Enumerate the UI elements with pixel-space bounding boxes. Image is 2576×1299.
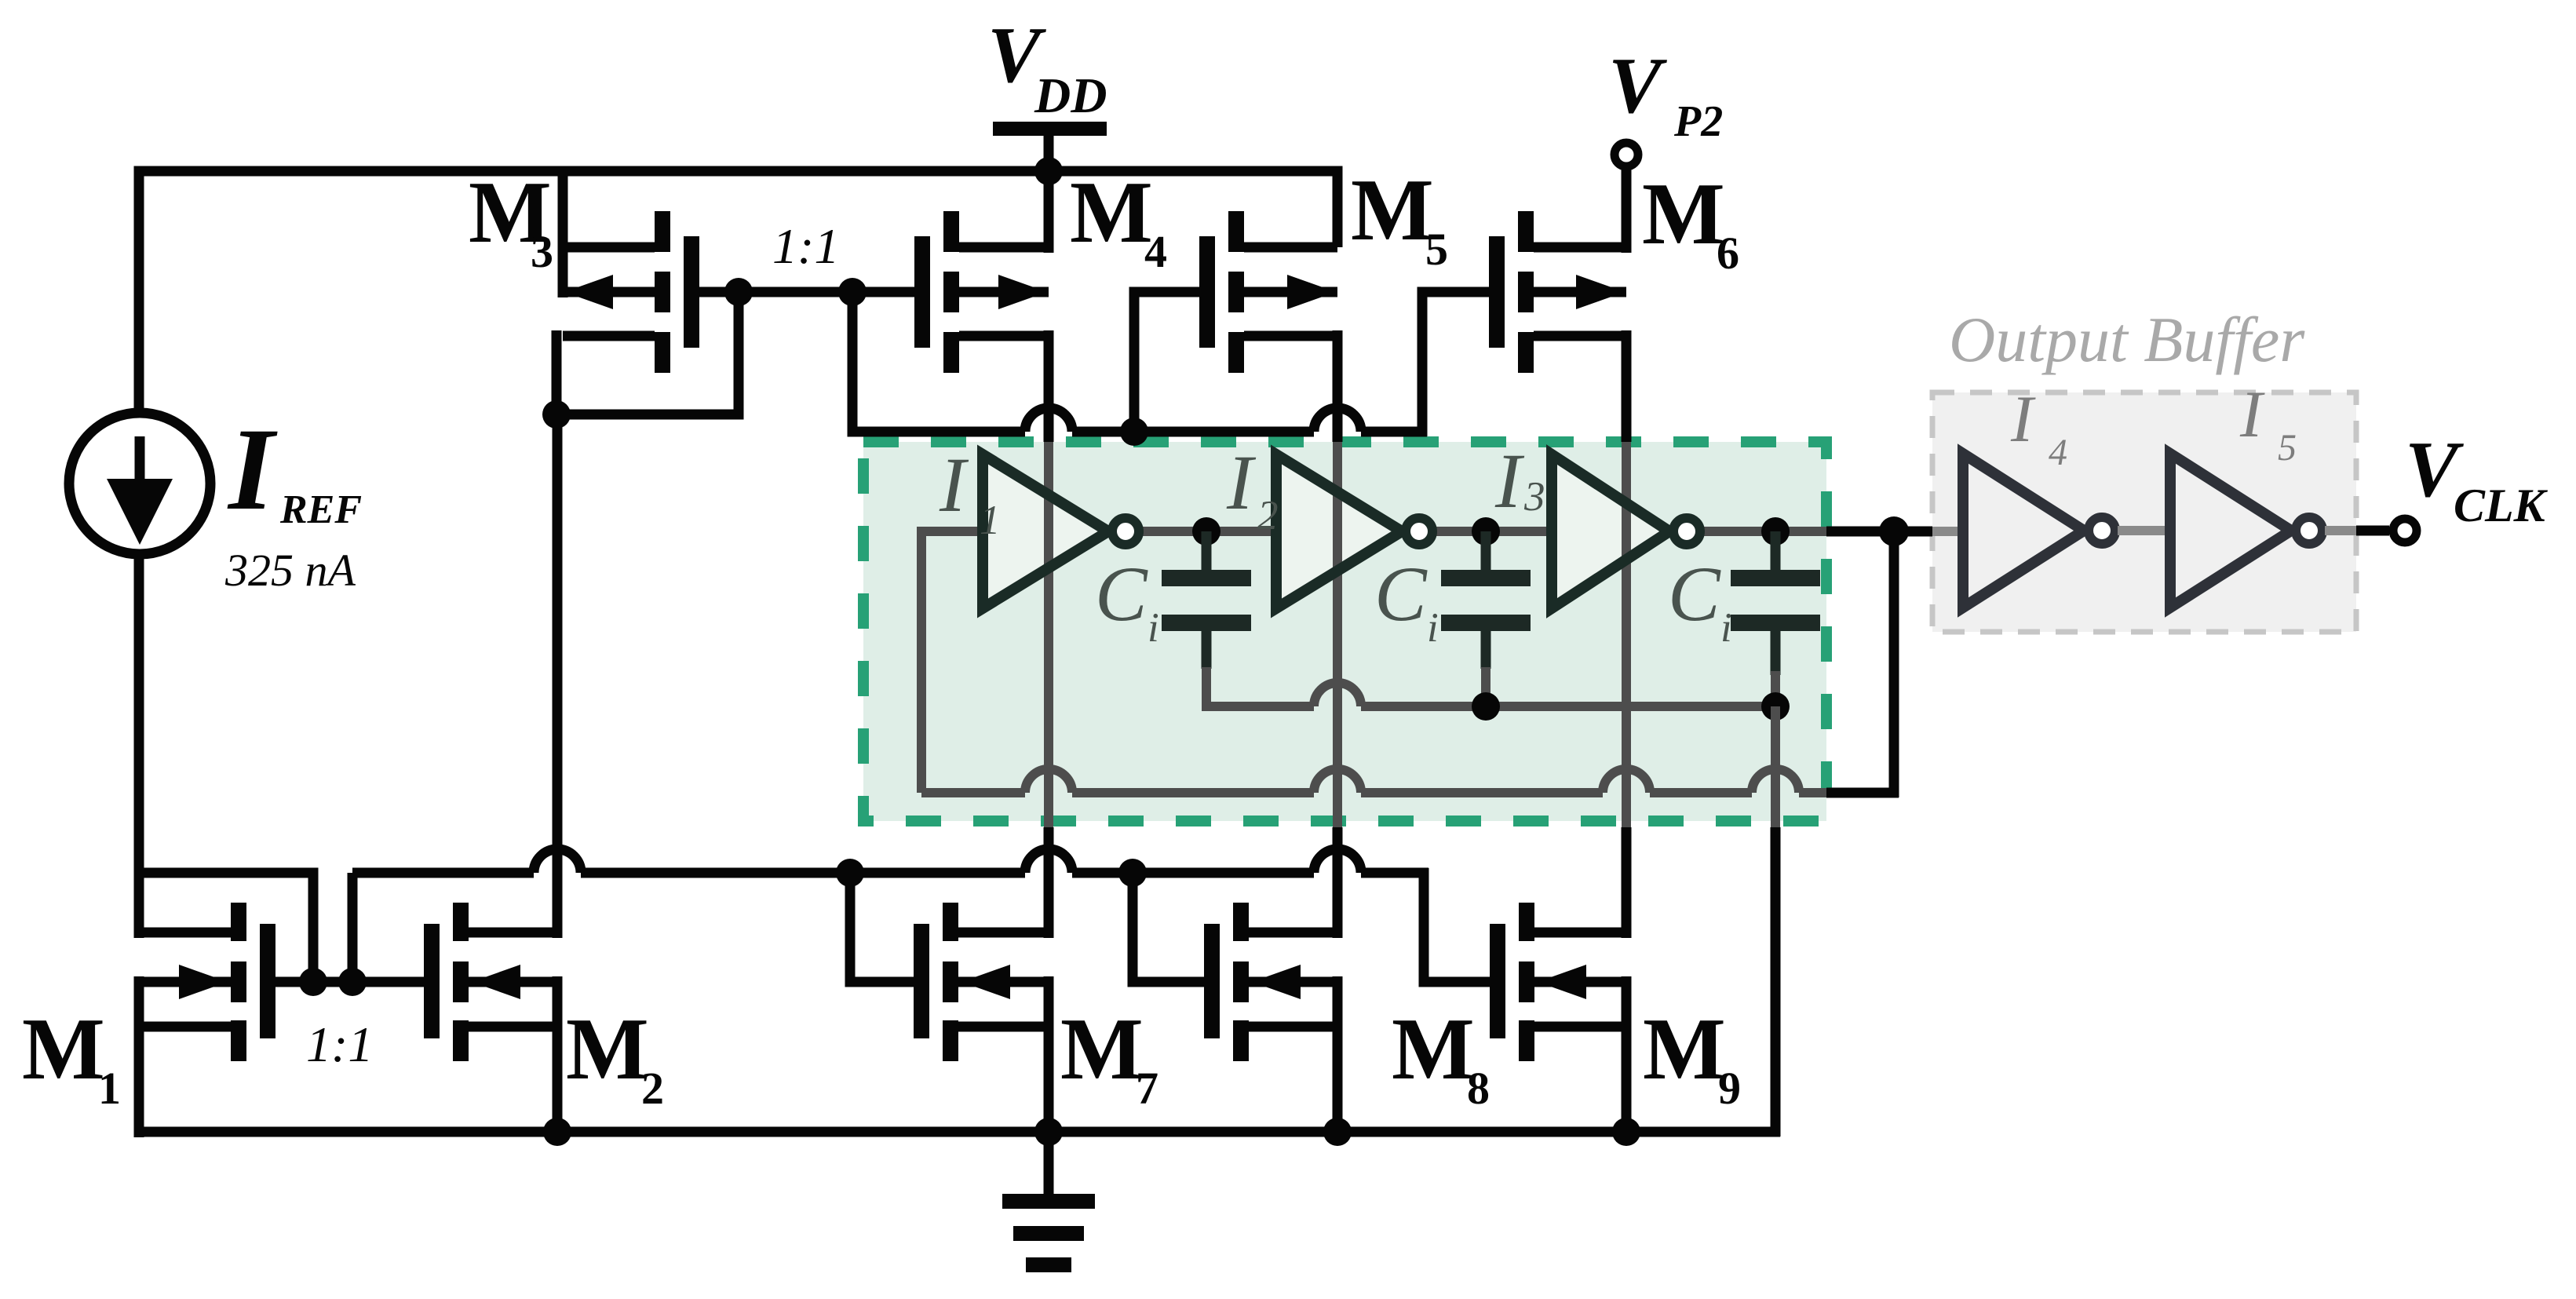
label C3 <box>1668 550 1732 651</box>
node M8 source dot <box>1323 1118 1352 1146</box>
ring oscillator block (green dashed box) <box>863 442 1826 821</box>
label M7 <box>1060 1001 1158 1114</box>
svg-text:REF: REF <box>279 487 362 532</box>
svg-text:6: 6 <box>1717 228 1739 279</box>
svg-text:DD: DD <box>1034 68 1107 123</box>
svg-text:9: 9 <box>1718 1063 1741 1114</box>
svg-text:CLK: CLK <box>2454 480 2549 531</box>
node M8 gate tap dot <box>1118 859 1147 887</box>
wire IREF to gate node <box>134 873 313 982</box>
ground <box>1002 1132 1095 1272</box>
wire feedback <box>921 527 1899 797</box>
svg-text:I: I <box>2010 382 2036 456</box>
label I5 <box>2239 378 2297 469</box>
wire I1 input <box>921 527 983 536</box>
label 325 nA <box>224 545 356 596</box>
wire M5 gate <box>1134 292 1199 436</box>
transistor M5 <box>1199 211 1337 373</box>
svg-text:5: 5 <box>1425 224 1448 275</box>
transistor M8 <box>1204 903 1337 1061</box>
wire I5 out <box>2325 526 2389 535</box>
wire I1 out to I2 <box>1138 527 1276 536</box>
svg-text:325 nA: 325 nA <box>224 545 356 596</box>
node M2 gate dot <box>338 968 367 996</box>
svg-text:1:1: 1:1 <box>772 218 839 274</box>
label I1 <box>939 441 1001 543</box>
svg-text:C: C <box>1095 550 1148 637</box>
node M3 gate-drain dot <box>724 278 753 306</box>
wire M3 drain stub down <box>552 330 562 414</box>
label VCLK <box>2405 425 2549 531</box>
wire cap common down <box>1771 706 1780 1137</box>
svg-text:C: C <box>1668 550 1721 637</box>
svg-text:I: I <box>2239 378 2265 451</box>
label IREF <box>227 404 362 535</box>
wire M7 source down <box>1044 976 1054 1132</box>
label M9 <box>1643 1001 1741 1114</box>
wire M5 drain down <box>1333 330 1343 442</box>
label M5 <box>1351 162 1448 275</box>
wire M2 source down <box>553 976 563 1132</box>
wire PMOS mirror bias <box>852 292 1427 432</box>
current source IREF <box>69 413 210 554</box>
wire IREF bottom to M1 drain <box>134 554 144 938</box>
label VP2 <box>1608 42 1723 146</box>
wire I2 out to I3 <box>1432 527 1552 536</box>
node oscillator output dot <box>1879 516 1909 546</box>
transistor M3 <box>563 211 699 373</box>
wire I1 starve line <box>1044 442 1053 938</box>
label C2 <box>1374 550 1439 651</box>
wire M7 gate <box>850 873 914 982</box>
wire M4 gate <box>852 287 914 297</box>
svg-text:3: 3 <box>1523 474 1545 520</box>
node M1 gate dot <box>299 968 327 996</box>
svg-text:4: 4 <box>2049 432 2067 473</box>
svg-text:I: I <box>227 404 278 535</box>
inverter I1 outline <box>983 454 1139 608</box>
wire top VDD rail <box>139 171 1337 413</box>
svg-text:I: I <box>1494 437 1525 524</box>
svg-text:2: 2 <box>641 1063 664 1114</box>
transistor M4 <box>914 211 1049 373</box>
node M2 source dot <box>543 1118 571 1146</box>
svg-text:M: M <box>22 1001 105 1098</box>
VDD symbol <box>987 11 1107 171</box>
node M4 gate dot <box>838 278 867 306</box>
node M7 source dot <box>1034 1118 1063 1146</box>
label M3 <box>469 164 553 277</box>
svg-text:M: M <box>1643 1001 1726 1098</box>
inverter I3 outline <box>1552 454 1700 608</box>
label 1:1 bottom <box>306 1016 373 1072</box>
svg-text:M: M <box>1642 166 1725 263</box>
svg-text:i: i <box>1148 605 1159 651</box>
capacitor C1 <box>1162 531 1251 711</box>
svg-text:8: 8 <box>1467 1063 1490 1114</box>
wire M2 gate <box>352 977 424 987</box>
svg-text:M: M <box>1070 164 1153 261</box>
svg-text:V: V <box>1608 42 1667 130</box>
svg-text:2: 2 <box>1257 493 1279 538</box>
capacitor C2 <box>1441 531 1531 706</box>
transistor M2 <box>424 903 557 1061</box>
svg-text:M: M <box>566 1001 649 1098</box>
svg-text:3: 3 <box>531 226 553 277</box>
inverter I5 <box>2170 454 2322 608</box>
transistor M9 <box>1490 903 1626 1061</box>
inverter I2 <box>1276 454 1402 608</box>
wire M8 gate <box>1133 873 1204 982</box>
label I4 <box>2010 382 2067 473</box>
svg-text:7: 7 <box>1136 1063 1158 1114</box>
terminal VCLK <box>2393 519 2417 542</box>
capacitor C3 <box>1731 531 1820 706</box>
wire I3 out <box>1699 527 1932 536</box>
wire M9 gate <box>1424 868 1490 982</box>
wire into I4 <box>1932 527 1963 536</box>
node M5 gate tap dot <box>1120 418 1148 446</box>
label I3 <box>1494 437 1545 524</box>
wire M6 gate <box>1422 292 1489 436</box>
wire I2 starve line <box>1333 442 1342 938</box>
transistor M7 <box>914 903 1049 1061</box>
wire ground rail <box>134 1127 1780 1137</box>
wire VP2 to M6 source <box>1622 166 1632 253</box>
node M3 drain / M2 drain junction <box>542 400 571 429</box>
label M1 <box>22 1001 121 1114</box>
node C2 bottom dot <box>1472 692 1500 721</box>
wire gate pair link <box>313 977 352 987</box>
label M2 <box>566 1001 664 1114</box>
svg-text:i: i <box>1427 605 1439 651</box>
terminal VP2 <box>1615 143 1638 166</box>
svg-text:i: i <box>1720 605 1732 651</box>
transistor M1 <box>139 903 275 1061</box>
inverter I2 outline <box>1276 454 1432 608</box>
wire NMOS mirror bias <box>352 849 1428 982</box>
inverter I1 <box>983 454 1108 608</box>
wire M9 source down <box>1622 976 1632 1132</box>
wire M4 drain down <box>1044 330 1054 442</box>
wire M1 source down <box>134 976 144 1137</box>
svg-text:1:1: 1:1 <box>306 1016 373 1072</box>
node ring node 2 dot <box>1472 517 1500 546</box>
svg-text:1: 1 <box>98 1063 121 1114</box>
transistor M6 <box>1489 211 1626 373</box>
wire M3 diode link <box>556 292 739 414</box>
svg-text:C: C <box>1374 550 1428 637</box>
node C3 bottom dot <box>1761 692 1790 721</box>
label C1 <box>1095 550 1159 651</box>
label M4 <box>1070 164 1167 277</box>
node M9 source dot <box>1612 1118 1640 1146</box>
wire M3 gate <box>699 287 739 297</box>
svg-text:P2: P2 <box>1673 97 1723 146</box>
label M6 <box>1642 166 1739 279</box>
svg-text:M: M <box>1060 1001 1144 1098</box>
wire M6 drain down <box>1622 330 1632 442</box>
wire M3 source rail drop <box>558 171 568 297</box>
wire M4 source up <box>1044 171 1054 253</box>
svg-text:Output Buffer: Output Buffer <box>1949 304 2305 375</box>
wire I3 starve line <box>1622 442 1631 938</box>
wire I4 to I5 <box>2118 526 2170 535</box>
svg-text:1: 1 <box>980 498 1001 543</box>
svg-text:I: I <box>939 441 969 528</box>
wire M1 gate <box>275 977 313 987</box>
svg-text:M: M <box>1351 162 1434 259</box>
inverter I3 <box>1552 454 1669 608</box>
inverter I4 <box>1963 454 2115 608</box>
node ring node 3 dot <box>1761 517 1790 546</box>
svg-text:I: I <box>1226 439 1257 526</box>
wire M2 drain up <box>553 414 563 938</box>
output buffer block (gray dashed box) <box>1932 392 2356 632</box>
label M8 <box>1392 1001 1490 1114</box>
wire mirror gates M3-M4 <box>739 287 852 297</box>
node ring node 1 dot <box>1192 517 1220 546</box>
label I2 <box>1226 439 1279 538</box>
svg-text:M: M <box>1392 1001 1475 1098</box>
node VDD junction dot <box>1034 157 1063 185</box>
svg-text:5: 5 <box>2278 427 2297 469</box>
node M7 gate tap dot <box>836 859 864 887</box>
wire M8 source down <box>1333 976 1343 1132</box>
svg-text:4: 4 <box>1144 226 1167 277</box>
wire capacitor common <box>1202 683 1775 706</box>
label 1:1 top <box>772 218 839 274</box>
label Output Buffer <box>1949 304 2305 375</box>
